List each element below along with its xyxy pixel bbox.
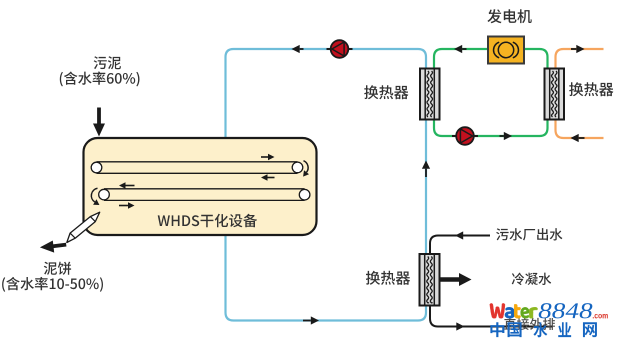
watermark: a: [505, 307, 514, 318]
pump P1 (blue loop): [327, 40, 353, 58]
watermark: t: [514, 304, 520, 318]
label: 直接外排 (direct discharge): [504, 318, 555, 330]
arrow: lower belt top surface moves left: [126, 185, 135, 187]
label: 换热器 right: [569, 82, 613, 96]
wire: green heat-recovery loop: [434, 49, 548, 136]
arrow: flow right on green bottom pipe: [500, 135, 504, 137]
pump P2 (green loop): [452, 127, 478, 145]
wire: blue circulation loop WHDS-to-heat-exchangers: [226, 49, 427, 321]
conveyor belt lower: [99, 189, 310, 201]
wire: black wastewater line into bottom heat exchanger: [430, 236, 553, 327]
arrow: wastewater in (points left): [463, 235, 468, 237]
watermark: 中: [490, 322, 504, 337]
wire: orange cooling water line: [556, 49, 604, 138]
WHDS dryer unit box: [84, 138, 317, 235]
label: 发电机 (generator): [487, 9, 531, 23]
chute: dried cake discharge tube: [67, 212, 100, 242]
watermark: 网: [583, 322, 597, 337]
label: (含水率60%): [60, 72, 140, 87]
curved arrow: left roller rotation: [91, 188, 97, 202]
watermark: .com: [593, 314, 608, 318]
watermark: 业: [558, 322, 571, 337]
arrow: flow right on bottom blue pipe: [303, 320, 311, 322]
arrow: flow left on green top pipe: [462, 48, 466, 50]
arrow: sludge inlet (thick, down): [97, 108, 101, 125]
arrow: belt return moves left: [268, 177, 275, 179]
arrow: flow left on orange bottom pipe: [579, 137, 585, 139]
watermark: 8848: [539, 303, 593, 318]
label: 换热器 left: [364, 85, 408, 99]
label: 换热器 bottom: [366, 271, 410, 285]
arrow: flow up on blue riser: [425, 169, 427, 177]
label: WHDS干化设备: [158, 214, 257, 227]
arrow: flow left on top blue pipe: [300, 48, 304, 50]
arrow: lower belt return moves right: [119, 205, 128, 207]
label: (含水率10-50%): [2, 277, 103, 292]
label: 冷凝水 (condensate): [512, 273, 552, 286]
watermark: e: [521, 307, 530, 318]
watermark: W: [490, 303, 505, 318]
watermark: 国: [508, 322, 522, 337]
label: 污水厂出水: [496, 228, 562, 240]
arrow: mud cake out (thick, left): [52, 245, 66, 247]
heat exchanger HX3 (bottom): [420, 254, 440, 306]
label: 污泥 (sludge): [94, 56, 121, 69]
watermark: r: [529, 307, 537, 318]
watermark: 水: [533, 322, 547, 337]
generator G1 (发电机): [488, 37, 524, 64]
conveyor belt upper: [91, 162, 303, 174]
label: 泥饼 (mud cake): [44, 262, 71, 275]
heat exchanger HX1 (left): [420, 69, 440, 120]
arrow: discharge out (points right): [452, 326, 456, 328]
heat exchanger HX2 (right): [545, 69, 565, 120]
curved arrow: right roller rotation: [304, 161, 309, 173]
arrow: condensate output (thick): [440, 277, 460, 282]
arrow: flow right on orange top pipe: [571, 48, 576, 50]
arrow: belt top surface moves right: [261, 156, 268, 158]
